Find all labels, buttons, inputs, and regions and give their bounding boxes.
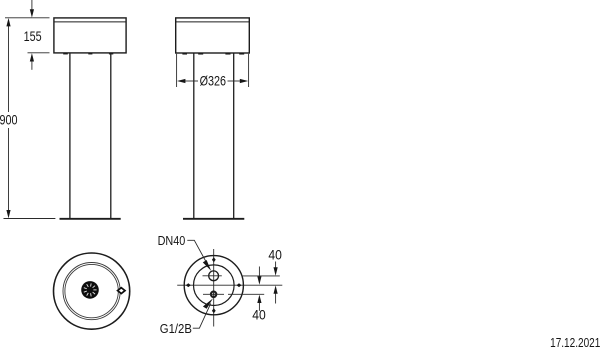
front view: basin rim line bbox=[54, 21, 126, 23]
DN40 drain hole bbox=[209, 271, 219, 281]
DN40 leader arrow bbox=[203, 260, 211, 271]
svg-text:40: 40 bbox=[252, 307, 266, 323]
svg-text:900: 900 bbox=[0, 112, 18, 127]
bottom view: horizontal centerline bbox=[177, 284, 282, 286]
bottom view: bottom quadrant tick bbox=[212, 308, 216, 313]
bottom view: vertical centerline bbox=[213, 249, 215, 327]
top view: bubbler detail bbox=[118, 288, 125, 294]
dim 155: bottom extension line bbox=[28, 52, 50, 54]
front view: underside tabs bbox=[63, 53, 113, 55]
top view: basin outer edge bbox=[54, 253, 130, 329]
top view: bowl rim inner circle bbox=[65, 264, 118, 317]
G1/2B leader arrow bbox=[203, 298, 213, 308]
bottom view: left quadrant tick bbox=[186, 283, 191, 287]
dim 900: top arrow (up) bbox=[6, 18, 10, 26]
dim 326: dimension line bbox=[185, 80, 198, 82]
side view: basin rim line bbox=[176, 21, 250, 23]
bottom view: pedestal tube bbox=[194, 265, 235, 306]
svg-text:17.12.2021: 17.12.2021 bbox=[550, 336, 600, 347]
front view: base plate bbox=[60, 218, 121, 220]
dim 40 lower: arrow below (up) bbox=[257, 295, 261, 311]
dim 900: dimension line bbox=[8, 25, 10, 113]
top view: bowl rim outer circle bbox=[63, 263, 120, 320]
svg-text:40: 40 bbox=[268, 247, 282, 263]
G1/2B leader line bbox=[193, 303, 211, 328]
dim 155: upper arrow (down) bbox=[30, 0, 34, 18]
front view: pedestal column bbox=[70, 53, 111, 218]
side view: underside tabs bbox=[182, 53, 244, 55]
dim 326: left extension line bbox=[176, 54, 178, 87]
dim 900: bottom extension line bbox=[4, 218, 56, 220]
svg-text:DN40: DN40 bbox=[158, 234, 186, 248]
dim 40 lower: arrow above (down) bbox=[257, 267, 261, 285]
svg-text:G1/2B: G1/2B bbox=[160, 321, 192, 336]
line through G1/2B hole bbox=[203, 293, 224, 295]
dim 155: lower arrow (up) bbox=[30, 53, 34, 70]
side view: base plate bbox=[183, 218, 244, 220]
top view: drain strainer bbox=[81, 281, 99, 299]
svg-text:155: 155 bbox=[24, 29, 42, 44]
dim 40 upper: arrow above (down) bbox=[274, 262, 278, 276]
svg-text:Ø326: Ø326 bbox=[200, 73, 227, 88]
dim 155: top extension line bbox=[5, 17, 50, 19]
bottom view: top quadrant tick bbox=[212, 257, 216, 262]
dim 326: right extension line bbox=[248, 54, 250, 87]
dim 900: bottom arrow (down) bbox=[6, 210, 10, 218]
extension line through DN40 bbox=[242, 275, 280, 277]
bottom view: base plate outline bbox=[184, 256, 243, 315]
dim 40 upper: arrow below (up) bbox=[274, 285, 278, 303]
DN40 hole crosshair bbox=[203, 275, 222, 277]
extension line through G1/2B bbox=[228, 293, 264, 295]
dim 326: left arrow bbox=[177, 79, 185, 83]
dim 326: right arrow bbox=[240, 79, 248, 83]
side view: basin body bbox=[176, 18, 250, 53]
bottom view: right quadrant tick bbox=[237, 283, 242, 287]
G1/2B supply hole bbox=[211, 292, 216, 297]
side view: pedestal column bbox=[194, 53, 234, 218]
DN40 leader line bbox=[187, 240, 208, 266]
front view: basin body bbox=[54, 18, 126, 53]
